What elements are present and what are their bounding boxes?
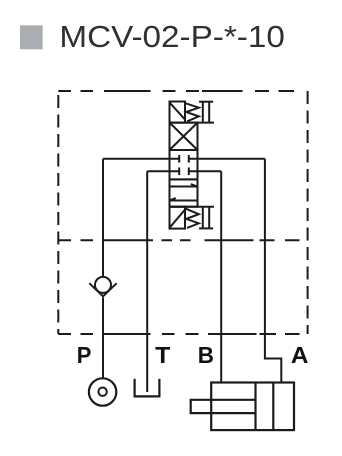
title bullet square (20, 25, 43, 49)
svg-text:P: P (77, 342, 92, 368)
wire: valve upper-right port line to A (189, 158, 265, 160)
svg-text:T: T (155, 342, 170, 368)
interface separator dashed line with P-T and B solid crossings (58, 239, 299, 241)
cylinder rod (191, 400, 256, 413)
check valve CV1 (89, 277, 116, 297)
valve position box 2 (closed centre with port T-bars) (170, 150, 198, 179)
tank symbol at T (135, 379, 160, 397)
solenoid U1 (top, with spring and bars) (170, 102, 215, 123)
svg-text:MCV-02-P-*-10: MCV-02-P-*-10 (59, 20, 285, 54)
solenoid U2 (bottom, with spring and bars) (170, 207, 215, 229)
wire: P line upper segment (102, 159, 104, 277)
gauge connection circle at P (89, 378, 116, 405)
wire: T line (146, 171, 148, 392)
wire: A line with jog (265, 159, 281, 383)
cylinder piston (254, 383, 256, 431)
enclosure dashed right edge (307, 91, 309, 334)
valve position box 3 (parallel flow paths with arrows) (170, 179, 198, 206)
wire: valve lower-left port line to T (147, 170, 179, 172)
enclosure dashed top edge (58, 90, 294, 92)
svg-text:A: A (291, 342, 309, 368)
wire: valve lower-right port line to B (189, 170, 221, 172)
wire: B line (220, 171, 222, 382)
wire: valve upper-left port line to P (103, 158, 179, 160)
enclosure dashed bottom edge with P-T and B solid crossings (58, 333, 299, 335)
cylinder body (191, 383, 294, 431)
enclosure dashed left edge (57, 95, 59, 334)
valve position box 1 (crossed arrows) (170, 123, 198, 150)
wire: P line lower segment (102, 298, 104, 379)
svg-text:B: B (198, 342, 214, 368)
